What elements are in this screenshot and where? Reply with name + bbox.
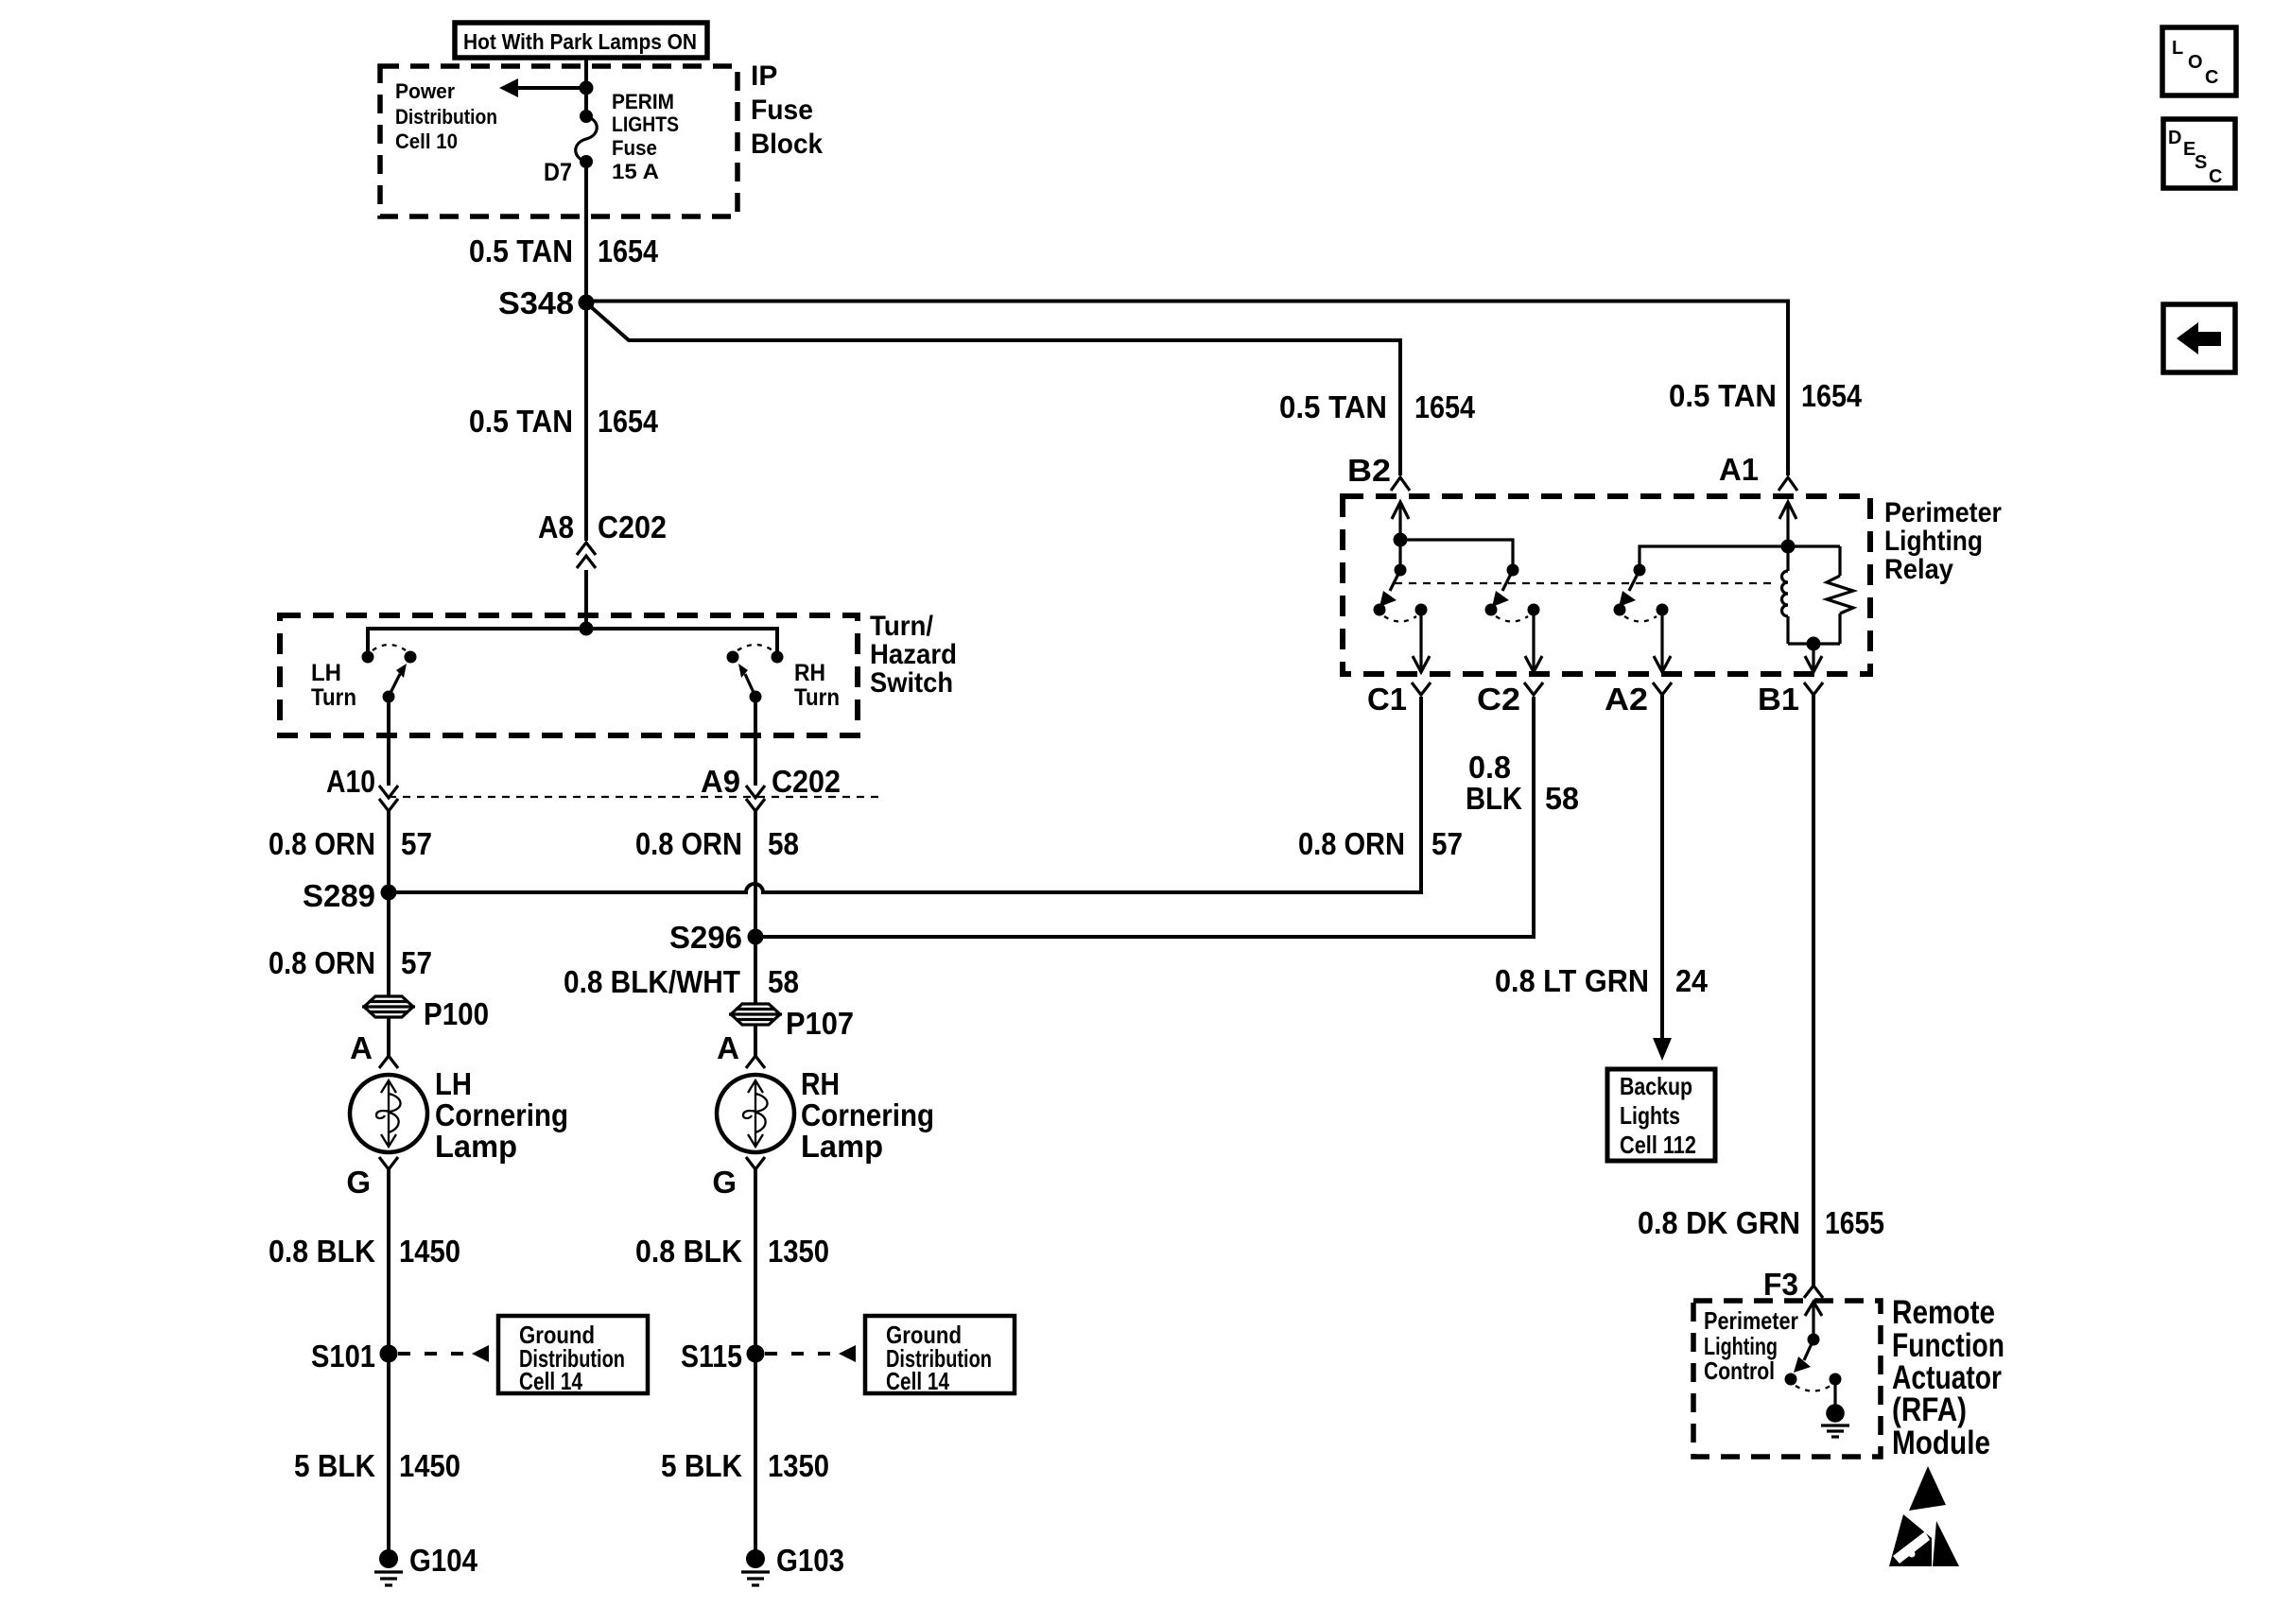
wire: A1 junction to switch 3 and resistor top [1640,546,1840,570]
Turn/Hazard Switch dashed box [280,615,858,735]
connector chevrons below relay: C1 C2 A2 B1 [1412,682,1823,695]
wire: A9 down to S296 [754,811,757,937]
svg-text:1655: 1655 [1825,1205,1884,1240]
wire: P100 to LH lamp pin A [387,1017,390,1056]
svg-text:1350: 1350 [768,1448,829,1483]
relay terminal A1 (male arrow inside box) [1779,502,1796,546]
node: relay A1 junction dot [1781,540,1796,554]
connector pin G (RH) [712,1157,765,1200]
Perimeter Lighting Relay dashed box [1343,496,1870,674]
svg-text:Power: Power [395,79,455,103]
connector pin G (LH) [346,1157,398,1200]
relay resistor [1827,546,1853,644]
reference box: Ground Distribution Cell 14 (RH) [865,1316,1015,1395]
label: 5 BLK 1350 [661,1448,829,1483]
label: RH Cornering Lamp [801,1066,934,1164]
svg-text:57: 57 [1431,826,1463,861]
label: 0.8 ORN 58 (RH upper) [635,826,799,861]
relay switch 3 (A1 to A2) [1614,564,1669,622]
relay coil [1782,546,1788,644]
connector chevron at B2 [1391,477,1410,491]
svg-text:LIGHTS: LIGHTS [612,112,679,136]
wire: relay B2 to contact arms [1400,540,1513,570]
svg-text:0.5 TAN: 0.5 TAN [1669,378,1777,413]
label: 0.8 BLK 1450 [269,1234,460,1269]
svg-text:A2: A2 [1605,682,1648,717]
svg-text:Cell 14: Cell 14 [519,1367,582,1395]
dashed reference arrow from S115 [765,1345,856,1362]
svg-text:58: 58 [768,826,799,861]
splice S296 [669,920,764,955]
svg-text:A1: A1 [1719,452,1759,487]
svg-text:BLK: BLK [1466,781,1522,816]
connector pin A (RH) [717,1030,765,1068]
wire: S296 down to P107 [754,937,757,1004]
lamp: RH Cornering Lamp [717,1075,794,1152]
grommet P100 [362,996,415,1017]
svg-text:1450: 1450 [399,1234,460,1269]
wire: fuse output down to S348 [584,162,588,302]
label: A9 C202 [701,764,841,799]
svg-text:Switch: Switch [870,667,953,699]
connector C202 pin A10 double chevron [379,786,398,811]
connector pin A (LH) [350,1030,398,1068]
svg-text:0.5 TAN: 0.5 TAN [1279,389,1387,424]
dashed reference arrow from S101 [398,1345,489,1362]
wire: LH switch output down to A10 [387,697,390,786]
wire: coil/resistor bottom bus [1788,642,1840,645]
relay output arrows to C1 C2 A2 B1 [1413,610,1822,672]
label: 0.5 TAN 1654 (second, left column) [469,404,659,439]
svg-text:Remote: Remote [1892,1294,1995,1331]
wire: feed from Hot box into fuse block [584,58,588,116]
Remote Function Actuator (RFA) Module dashed box [1693,1301,1881,1457]
svg-text:Hazard: Hazard [870,639,957,670]
svg-text:B2: B2 [1347,453,1391,488]
label: IP Fuse Block [751,60,823,160]
ground G103 [741,1543,844,1585]
svg-text:Turn/: Turn/ [870,611,934,642]
wire: arrow to Power Distribution [499,78,586,97]
svg-text:A9: A9 [701,764,740,799]
svg-text:5 BLK: 5 BLK [294,1448,375,1483]
label: Power Distribution Cell 10 [395,79,497,153]
LOC reference box [2162,27,2236,95]
svg-text:G104: G104 [409,1543,478,1578]
svg-text:C1: C1 [1367,682,1407,717]
wire: S348 to relay B2 (diagonal + horizontal + vertical) [588,304,1400,475]
svg-text:Hot With Park Lamps ON: Hot With Park Lamps ON [463,29,697,54]
svg-text:C: C [2209,166,2222,187]
svg-text:O: O [2188,52,2203,73]
wire: S289 to relay C1 (with hop over RH wire) [389,697,1421,892]
svg-text:(RFA): (RFA) [1892,1391,1967,1428]
wire: LH lamp G down to G104 [387,1169,390,1559]
svg-text:Distribution: Distribution [395,105,497,129]
wire: RH lamp G down to G103 [754,1169,757,1559]
svg-text:IP: IP [751,60,777,92]
svg-text:B1: B1 [1758,682,1799,717]
reference box: Backup Lights Cell 112 [1607,1069,1715,1161]
reference box: Ground Distribution Cell 14 (LH) [498,1316,648,1395]
svg-text:Lighting: Lighting [1884,526,1983,557]
label: LH Cornering Lamp [435,1066,568,1164]
svg-text:Cornering: Cornering [801,1097,934,1132]
svg-text:P107: P107 [786,1006,854,1041]
svg-text:0.8 ORN: 0.8 ORN [269,826,375,861]
svg-text:G103: G103 [776,1543,844,1578]
switch: Perimeter Lighting Control (inside RFA) [1785,1302,1842,1391]
svg-text:A: A [350,1030,373,1065]
svg-text:S: S [2195,152,2207,173]
svg-text:Fuse: Fuse [751,95,813,126]
splice S348 [498,285,595,320]
wire: A10 down to S289 [387,811,390,892]
label: 0.5 TAN 1654 (B2 branch) [1279,389,1476,424]
ground inside RFA module [1821,1379,1849,1437]
label: 0.8 BLK/WHT 58 [564,964,799,999]
wire: P107 to RH lamp pin A [754,1025,757,1056]
svg-text:A10: A10 [326,764,375,799]
fuse PERIM LIGHTS 15A: element curve with end dots [576,110,598,168]
wire: S348 down to C202 A8 [584,302,588,541]
svg-text:0.8 BLK: 0.8 BLK [269,1234,375,1269]
svg-text:S115: S115 [681,1339,742,1373]
svg-text:Control: Control [1704,1356,1775,1385]
svg-text:Lamp: Lamp [435,1129,517,1164]
svg-text:G: G [712,1165,737,1200]
svg-text:Fuse: Fuse [612,136,657,160]
wire: A2 to Backup Lights with solid arrow [1653,695,1672,1061]
label: Remote Function Actuator (RFA) Module [1892,1294,2004,1461]
splice S115 [681,1339,765,1373]
svg-text:G: G [346,1165,371,1200]
connector C202 pin A8 double chevron [577,543,596,568]
label: 5 BLK 1450 [294,1448,460,1483]
svg-text:1450: 1450 [399,1448,460,1483]
svg-text:RH: RH [794,660,825,686]
ground G104 [374,1543,478,1585]
ESD sensitive device symbol [1889,1466,1959,1566]
relay terminal B2 (male arrow inside box) [1392,502,1409,540]
svg-text:0.5 TAN: 0.5 TAN [469,404,573,439]
svg-text:0.8 ORN: 0.8 ORN [1298,826,1405,861]
label: 0.8 ORN 57 (LH lower) [269,945,432,980]
svg-text:1654: 1654 [1801,378,1863,413]
svg-text:Backup: Backup [1620,1072,1692,1100]
lamp: LH Cornering Lamp [350,1075,427,1152]
label: Turn/Hazard Switch [870,611,957,699]
connector C202 separation dashed line [389,796,878,798]
svg-text:0.8 BLK/WHT: 0.8 BLK/WHT [564,964,740,999]
svg-text:S296: S296 [669,920,742,955]
svg-text:A: A [717,1030,739,1065]
svg-text:C: C [2205,67,2218,88]
label: 0.8 BLK 1350 [635,1234,829,1269]
connector C202 pin A9 double chevron [746,786,765,811]
connector chevron at A1 [1778,477,1797,491]
DESC reference box [2163,119,2235,188]
svg-text:0.8 BLK: 0.8 BLK [635,1234,742,1269]
wire: RH switch output down to A9 [754,697,757,786]
svg-text:RH: RH [801,1066,840,1101]
svg-text:1654: 1654 [598,404,659,439]
svg-text:Perimeter: Perimeter [1704,1306,1798,1335]
wire: S348 to relay A1 (top horizontal + right vertical) [586,302,1788,476]
svg-text:LH: LH [311,660,341,686]
label: 0.5 TAN 1654 (A1 branch) [1669,378,1863,413]
svg-text:LH: LH [435,1066,472,1101]
svg-text:0.5 TAN: 0.5 TAN [469,233,573,268]
svg-text:57: 57 [401,945,432,980]
label: 0.8 LT GRN 24 [1495,963,1709,998]
wire: A8 to turn/hazard bus [584,570,588,629]
label: PERIM LIGHTS Fuse 15 A [612,90,679,183]
label: 0.8 BLK 58 (C2 branch) [1466,750,1579,816]
svg-text:0.8 DK GRN: 0.8 DK GRN [1638,1205,1800,1240]
svg-text:0.8 ORN: 0.8 ORN [635,826,742,861]
node: bus junction dot [580,622,594,636]
relay armature linkage dashed line [1395,582,1776,584]
svg-text:1654: 1654 [1414,389,1476,424]
svg-text:Cell 14: Cell 14 [886,1367,949,1395]
svg-text:0.8 ORN: 0.8 ORN [269,945,375,980]
grommet P107 [729,1004,782,1025]
label: Perimeter Lighting Relay [1884,497,2002,585]
svg-text:D: D [2168,128,2181,148]
svg-text:1350: 1350 [768,1234,829,1269]
switch: LH Turn [362,645,417,703]
label: RH Turn [794,660,840,711]
svg-text:C202: C202 [598,510,667,544]
wire: S296 to relay C2 [755,697,1534,937]
node: feed junction dot [580,81,594,95]
svg-text:15 A: 15 A [612,160,659,183]
svg-text:C2: C2 [1477,682,1520,717]
connector chevron at F3 [1804,1286,1823,1298]
label: 0.8 ORN 57 (C1 branch) [1298,826,1463,861]
title box: Hot With Park Lamps ON [455,23,707,58]
node: relay B1 junction dot [1807,637,1821,651]
wire: S289 down to P100 [387,892,390,996]
svg-text:58: 58 [1545,781,1579,816]
svg-text:Cell 112: Cell 112 [1620,1131,1696,1159]
svg-text:F3: F3 [1763,1267,1798,1302]
node: relay B2 junction dot [1394,533,1408,547]
label: 0.8 ORN 57 (LH upper) [269,826,432,861]
label: A8 C202 [538,510,667,544]
label: LH Turn [311,660,356,711]
svg-text:L: L [2172,38,2183,59]
svg-text:S289: S289 [303,878,375,913]
svg-text:58: 58 [768,964,799,999]
svg-text:1654: 1654 [598,233,659,268]
svg-text:PERIM: PERIM [612,90,674,113]
svg-text:5 BLK: 5 BLK [661,1448,742,1483]
back navigation arrow box [2163,304,2235,372]
svg-text:Cell 10: Cell 10 [395,130,458,153]
svg-text:Module: Module [1892,1425,1990,1461]
label: 0.8 DK GRN 1655 [1638,1205,1884,1240]
svg-text:C202: C202 [772,764,841,799]
svg-text:Turn: Turn [311,684,356,711]
relay switch 1 (B2 to C1) [1374,564,1428,622]
svg-text:D7: D7 [544,158,572,186]
label: Perimeter Lighting Control [1704,1306,1798,1385]
svg-text:Turn: Turn [794,684,840,711]
splice S289 [303,878,397,913]
wire: switch feed bus [368,629,777,652]
svg-text:0.8 LT GRN: 0.8 LT GRN [1495,963,1649,998]
svg-text:Lights: Lights [1620,1101,1680,1130]
svg-text:S348: S348 [498,285,574,320]
switch: RH Turn [727,645,784,703]
svg-text:P100: P100 [424,996,489,1031]
svg-text:Lamp: Lamp [801,1129,883,1164]
wire: B1 down to RFA F3 [1812,695,1815,1286]
svg-text:Block: Block [751,129,823,160]
splice S101 [311,1339,398,1373]
svg-text:24: 24 [1675,963,1709,998]
IP Fuse Block dashed box [380,66,737,216]
label: 0.5 TAN 1654 (top) [469,233,659,268]
svg-text:Cornering: Cornering [435,1097,568,1132]
svg-text:S101: S101 [311,1339,375,1373]
svg-text:0.8: 0.8 [1468,750,1511,785]
relay switch 2 (B2 to C2) [1485,564,1540,622]
svg-text:Perimeter: Perimeter [1884,497,2002,528]
svg-text:57: 57 [401,826,432,861]
svg-text:Relay: Relay [1884,554,1953,585]
svg-text:A8: A8 [538,510,574,544]
